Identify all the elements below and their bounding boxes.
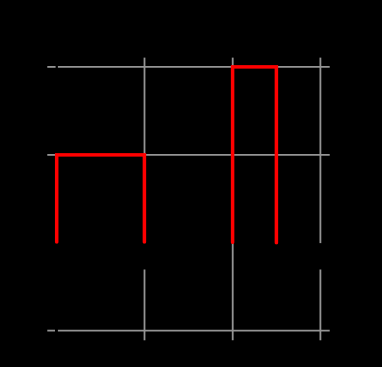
red pulse 1 (wide, height 1)	[57, 155, 145, 242]
vertical gridline x=3 upper segment	[319, 58, 321, 244]
red pulse 2 (narrow, height 2)	[233, 67, 277, 243]
horizontal gridline y=-1	[58, 330, 330, 332]
horizontal gridline y=1	[58, 154, 330, 156]
vertical gridline x=3 lower segment	[319, 270, 321, 341]
y tick dash middle-left	[47, 154, 55, 156]
vertical gridline x=1 upper segment	[144, 58, 146, 244]
horizontal gridline y=2	[58, 66, 330, 68]
vertical gridline x=2 full	[232, 58, 234, 341]
y tick dash top-left	[47, 66, 55, 68]
y tick dash bottom-left	[47, 330, 55, 332]
vertical gridline x=1 lower segment	[144, 270, 146, 341]
